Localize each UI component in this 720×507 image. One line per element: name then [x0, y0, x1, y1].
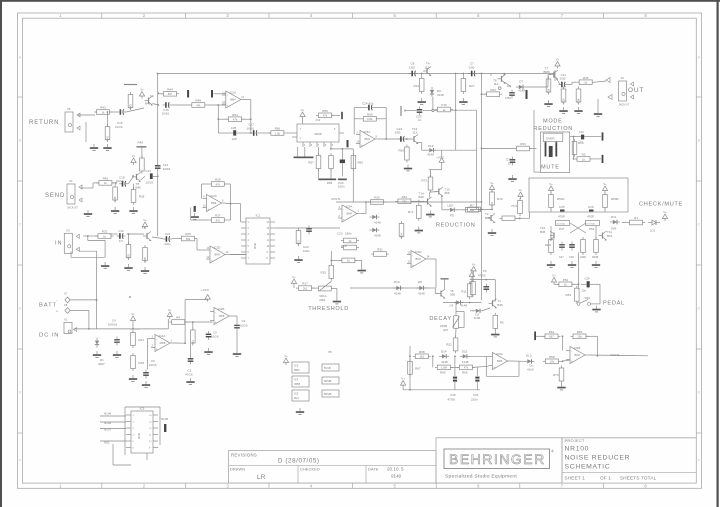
- svg-text:-: -: [412, 253, 413, 257]
- wire t5 supply bar: [441, 278, 449, 280]
- wire in fb b: [88, 239, 105, 241]
- transistor T11: [599, 231, 607, 241]
- wire diode row b: [430, 287, 435, 289]
- svg-text:10k: 10k: [550, 360, 555, 364]
- svg-text:1/50: 1/50: [395, 131, 401, 135]
- junction rail r67: [409, 389, 411, 391]
- wire ic9 tail a: [112, 444, 114, 465]
- ground r31b: [358, 267, 366, 273]
- svg-text:V+: V+: [132, 154, 136, 158]
- wire c6 up: [147, 339, 149, 370]
- ground R36: [544, 100, 552, 106]
- svg-text:R65: R65: [399, 149, 405, 153]
- wire d7 t7: [526, 86, 548, 88]
- wire in tip: [83, 235, 98, 237]
- svg-text:B45: B45: [485, 216, 491, 220]
- wire t12 emitter: [441, 196, 443, 210]
- svg-text:D10: D10: [394, 280, 400, 284]
- wire fb ic6b b: [597, 336, 599, 356]
- svg-text:1/50: 1/50: [505, 96, 511, 100]
- resistor R40A: [549, 237, 554, 255]
- wire in sleeve down: [96, 251, 98, 262]
- wire vr2b top: [455, 303, 457, 316]
- wire box c21: [570, 136, 574, 138]
- connector X7 battery: [65, 297, 70, 303]
- capacitor C5: [484, 284, 490, 293]
- svg-text:B45: B45: [540, 230, 546, 234]
- wire p52 mid: [572, 283, 579, 285]
- resistor R30: [561, 87, 566, 105]
- svg-text:1/50: 1/50: [409, 66, 415, 70]
- svg-text:1n: 1n: [508, 162, 512, 166]
- capacitor C9c: [526, 90, 528, 99]
- svg-text:112: 112: [413, 131, 418, 135]
- svg-text:DRAWN: DRAWN: [230, 467, 245, 471]
- svg-text:IC6B: IC6B: [574, 346, 581, 350]
- svg-text:IC5C: IC5C: [364, 130, 372, 134]
- resistor R15: [329, 263, 334, 281]
- svg-text:+: +: [156, 347, 158, 351]
- svg-text:REDUCTION: REDUCTION: [534, 126, 574, 132]
- wire v+ rail stub: [402, 388, 404, 390]
- power symbol V+: [130, 312, 135, 323]
- resistor P52: [556, 278, 574, 287]
- ground in sleeve: [101, 262, 109, 268]
- svg-text:X7: X7: [64, 292, 68, 296]
- junction v+ rail: [132, 328, 134, 330]
- resistor R220: [581, 237, 586, 255]
- ground return sleeve: [90, 144, 98, 150]
- ground c2: [204, 348, 212, 354]
- svg-text:R44: R44: [167, 87, 173, 91]
- wire ic6b in drop: [562, 336, 564, 350]
- potentiometer P51: [586, 221, 600, 226]
- wire VCNTL rail: [336, 201, 482, 203]
- svg-text:R21: R21: [139, 338, 145, 342]
- power symbol V+: [551, 273, 556, 284]
- svg-text:R31: R31: [377, 248, 383, 252]
- svg-text:-: -: [211, 249, 212, 253]
- power symbol: [205, 295, 210, 302]
- junction ic4a out: [184, 342, 186, 344]
- ground R33: [124, 264, 132, 270]
- wire r50d c26: [604, 209, 606, 212]
- power symbol V+: [518, 188, 523, 199]
- svg-text:R68: R68: [419, 350, 425, 354]
- connector X5 block: [322, 364, 339, 397]
- wire row under ic2: [331, 148, 354, 150]
- svg-text:V+: V+: [556, 57, 560, 61]
- svg-text:BM4: BM4: [416, 257, 422, 261]
- svg-text:Specialized Studio Equipment: Specialized Studio Equipment: [445, 474, 517, 480]
- svg-text:D: D: [19, 306, 22, 311]
- junction r61: [418, 200, 420, 202]
- junction r63 bus: [481, 148, 483, 150]
- ground c3: [233, 350, 241, 356]
- wire c17 r66: [259, 132, 270, 134]
- svg-text:IC10: IC10: [230, 91, 237, 95]
- wire fb r54 l: [354, 118, 361, 120]
- svg-text:T5: T5: [142, 226, 146, 230]
- junction r22 row: [454, 355, 456, 357]
- svg-text:10/16: 10/16: [240, 324, 248, 328]
- svg-text:R67: R67: [415, 367, 421, 371]
- svg-text:667: 667: [168, 92, 173, 96]
- resistor R31b: [339, 258, 357, 263]
- svg-text:NOISE REDUCER: NOISE REDUCER: [565, 455, 631, 462]
- junction d14: [432, 355, 434, 357]
- resistor R50: [571, 330, 589, 339]
- svg-text:A: A: [19, 55, 22, 60]
- svg-text:B45: B45: [497, 303, 503, 307]
- wire t6 up: [490, 74, 492, 77]
- svg-text:112: 112: [494, 82, 499, 86]
- svg-text:10/15: 10/15: [145, 180, 153, 184]
- power symbol V+: [555, 57, 560, 68]
- wire r31b gnd b: [361, 260, 363, 266]
- svg-text:JACK-ST: JACK-ST: [619, 103, 630, 107]
- wire r41 drop: [107, 112, 109, 127]
- wire ic2c fb bot: [190, 208, 192, 221]
- svg-text:PROJECT: PROJECT: [565, 438, 585, 443]
- wire c18 t8: [128, 177, 133, 184]
- wire t2 base rail: [470, 208, 492, 210]
- ground sw2: [592, 306, 600, 312]
- wire r29 in: [202, 183, 209, 185]
- svg-text:V+: V+: [131, 312, 135, 316]
- wire dcin to d1: [130, 328, 140, 330]
- svg-text:10/16: 10/16: [163, 167, 171, 171]
- svg-text:R20: R20: [374, 196, 380, 200]
- capacitor C7: [468, 71, 477, 77]
- power symbol V+: [469, 268, 474, 279]
- wire r57 gnd: [318, 169, 320, 179]
- svg-text:V+: V+: [552, 273, 556, 277]
- svg-text:DECAY: DECAY: [429, 316, 451, 322]
- terminal bar R56: [341, 112, 343, 119]
- capacitor C24: [163, 232, 172, 246]
- transistor T10: [550, 231, 554, 241]
- wire r3 stem: [192, 322, 194, 330]
- resistor R58b: [543, 355, 561, 364]
- op-amp IC5D: [407, 250, 430, 268]
- svg-text:+: +: [412, 263, 414, 267]
- ground r40a: [547, 261, 555, 267]
- wire r11 top: [471, 279, 473, 284]
- svg-text:CHECKED: CHECKED: [300, 467, 320, 471]
- svg-text:2k2: 2k2: [303, 286, 308, 290]
- wire c25 row r: [237, 132, 251, 134]
- svg-text:C3: C3: [242, 319, 246, 323]
- BEHRINGER logo box: [436, 438, 562, 483]
- svg-text:B46: B46: [136, 185, 142, 189]
- junction r46: [115, 182, 117, 184]
- wire t5 base: [435, 293, 438, 295]
- svg-text:A: A: [698, 55, 701, 60]
- junction rail bus: [481, 73, 483, 75]
- junction t6 rail: [503, 73, 505, 75]
- junction c21: [573, 136, 575, 138]
- wire v+ p52: [554, 283, 559, 285]
- wire r60 to vcntl: [352, 149, 354, 202]
- resistor R50D: [603, 192, 608, 210]
- svg-text:1/50: 1/50: [560, 77, 566, 81]
- svg-text:3046: 3046: [137, 432, 141, 439]
- wire IC2 vplus: [302, 119, 304, 124]
- capacitor C25b: [560, 210, 565, 212]
- svg-text:X4: X4: [69, 179, 73, 183]
- wire ic4a out: [174, 342, 185, 344]
- resistor R29: [209, 178, 227, 187]
- op-amp IC2D: [206, 246, 229, 264]
- svg-text:SW2: SW2: [585, 296, 591, 300]
- wire batt plus a: [70, 310, 89, 312]
- resistor R44: [161, 87, 179, 96]
- wire send path a: [112, 182, 117, 184]
- resistor R35: [577, 76, 595, 85]
- svg-text:IC5: IC5: [294, 392, 299, 396]
- diode LD2: [447, 208, 457, 212]
- svg-text:47k: 47k: [216, 218, 221, 222]
- wire c1 up: [190, 343, 192, 355]
- junction t8 base: [132, 175, 134, 177]
- LED LD1: [652, 220, 656, 225]
- svg-text:V+: V+: [519, 188, 523, 192]
- wire r61 t14: [413, 200, 424, 202]
- wire t6 d7: [506, 83, 512, 88]
- capacitor C1: [188, 356, 194, 365]
- wire t14 r72: [429, 192, 431, 197]
- junction r62 r50: [562, 335, 564, 337]
- junction vr2b row: [455, 302, 457, 304]
- wire n102: [100, 421, 126, 423]
- svg-text:IC2: IC2: [316, 118, 321, 122]
- wire t5 base drop: [434, 288, 436, 294]
- wire out sleeve: [597, 99, 599, 110]
- resistor R26: [143, 245, 148, 263]
- capacitor C30: [340, 160, 345, 164]
- junction pc1: [519, 217, 521, 219]
- svg-text:R63: R63: [520, 142, 526, 146]
- wire r50c c25: [550, 209, 552, 212]
- svg-text:BM4: BM4: [230, 98, 236, 102]
- svg-text:+: +: [215, 320, 217, 324]
- junction c5: [485, 279, 487, 281]
- svg-text:50k: 50k: [186, 237, 191, 241]
- svg-text:R48: R48: [138, 141, 144, 145]
- wire r33 drop: [128, 234, 130, 245]
- wire r25 to ic2d: [197, 249, 206, 251]
- wire IC10 out: [245, 99, 251, 101]
- resistor R11: [467, 281, 472, 299]
- svg-text:4148: 4148: [460, 304, 467, 308]
- junction r11 row: [469, 302, 471, 304]
- svg-text:4148: 4148: [462, 360, 469, 364]
- svg-text:C4: C4: [449, 304, 453, 308]
- svg-text:47k: 47k: [323, 114, 328, 118]
- wire ic4a in: [148, 338, 152, 340]
- svg-text:IC4A: IC4A: [159, 334, 166, 338]
- svg-text:BM4: BM4: [347, 212, 353, 216]
- wire c19 up: [454, 356, 456, 376]
- wire r55 gnd: [330, 169, 332, 179]
- capacitor C14: [155, 163, 161, 172]
- svg-text:NR100: NR100: [565, 446, 590, 453]
- resistor R25: [179, 232, 197, 241]
- potentiometer P47: [556, 221, 570, 226]
- resistor R66b: [435, 365, 453, 370]
- wire cross 2: [570, 223, 586, 233]
- svg-text:+: +: [361, 143, 363, 147]
- resistor R56: [316, 109, 334, 118]
- ground D1: [93, 351, 101, 357]
- power symbol V+: [139, 87, 144, 98]
- svg-text:667: 667: [549, 335, 554, 339]
- junction r44: [157, 92, 159, 94]
- resistor R39: [131, 187, 136, 205]
- svg-text:+: +: [211, 259, 213, 263]
- svg-text:R54: R54: [232, 113, 238, 117]
- svg-text:1/50: 1/50: [469, 66, 475, 70]
- junction pedal mid: [578, 283, 580, 285]
- wire pin5 r57: [318, 147, 320, 156]
- svg-text:R53: R53: [566, 293, 572, 297]
- svg-text:10/16: 10/16: [116, 179, 124, 183]
- wire t5 row: [443, 302, 482, 304]
- wire batt plus b: [88, 311, 90, 329]
- svg-text:C: C: [698, 222, 701, 227]
- resistor R19: [341, 245, 359, 250]
- svg-text:N102: N102: [104, 421, 112, 425]
- svg-text:X6: X6: [67, 107, 71, 111]
- svg-text:R43: R43: [100, 106, 106, 110]
- svg-text:THRESHOLD: THRESHOLD: [308, 306, 349, 312]
- wire r66 ic2: [286, 132, 297, 134]
- wire ic6a out: [512, 360, 525, 362]
- resistor R28: [368, 196, 386, 205]
- wire bar ic10: [214, 93, 226, 95]
- wire fb right: [385, 108, 387, 140]
- svg-text:E: E: [698, 390, 701, 395]
- wire vertical c14 bottom: [157, 172, 159, 237]
- resistor R45: [96, 177, 114, 186]
- wire r37 out: [227, 219, 231, 221]
- transistor T14: [424, 197, 432, 207]
- svg-text:OVER: OVER: [546, 136, 555, 140]
- wire supply bar R48: [137, 146, 147, 148]
- wire in fb a: [87, 236, 89, 240]
- svg-text:D15: D15: [462, 350, 468, 354]
- svg-text:R66: R66: [275, 127, 281, 131]
- transistor T13: [410, 135, 418, 145]
- svg-text:PEDAL: PEDAL: [603, 301, 625, 307]
- svg-text:47/50: 47/50: [478, 273, 486, 277]
- svg-text:C: C: [19, 222, 22, 227]
- resistor R71: [417, 203, 422, 221]
- svg-text:R5: R5: [500, 321, 504, 325]
- op-amp IC5A: [338, 205, 361, 223]
- wire to IC2D: [196, 239, 198, 251]
- capacitor C17: [250, 130, 259, 136]
- ground ic4a: [129, 375, 137, 381]
- svg-text:BM4: BM4: [294, 368, 300, 372]
- svg-text:47/16: 47/16: [185, 373, 193, 377]
- transistor T5b: [143, 232, 151, 242]
- diode D13: [427, 148, 437, 152]
- diode D6: [370, 228, 380, 232]
- capacitor C12: [187, 90, 189, 98]
- svg-text:-: -: [343, 208, 344, 212]
- junction batt: [129, 296, 131, 298]
- connector X2: [619, 76, 634, 107]
- svg-text:P51: P51: [589, 227, 595, 231]
- wire r23 up: [421, 74, 423, 77]
- capacitor C2: [206, 331, 212, 340]
- capacitor C26: [589, 210, 594, 212]
- ground send sleeve: [84, 210, 92, 216]
- wire to ic1 pin1: [240, 204, 242, 222]
- ground IC2C: [191, 213, 199, 219]
- svg-text:C26: C26: [588, 205, 594, 209]
- svg-text:R62: R62: [549, 330, 555, 334]
- svg-text:10/16: 10/16: [211, 335, 219, 339]
- svg-text:1k2: 1k2: [420, 355, 425, 359]
- power symbol: [439, 158, 444, 165]
- connector X3: [64, 228, 79, 253]
- transistor T7: [550, 70, 558, 80]
- junction r55 row: [330, 148, 332, 150]
- junction x7: [96, 299, 98, 301]
- junction ic5a vcntl: [365, 201, 367, 203]
- svg-text:SEND: SEND: [45, 193, 65, 199]
- junction r3 top: [192, 321, 194, 323]
- svg-text:+: +: [494, 365, 496, 369]
- svg-text:+VCC: +VCC: [436, 155, 445, 159]
- svg-text:R49: R49: [196, 99, 202, 103]
- op-amp IC2C: [203, 194, 226, 212]
- svg-text:R70: R70: [553, 373, 559, 377]
- svg-text:C24: C24: [165, 232, 170, 236]
- svg-text:R22: R22: [446, 343, 452, 347]
- wire fb ic6a: [518, 361, 520, 376]
- capacitor C13: [150, 173, 153, 179]
- svg-text:R27: R27: [469, 84, 475, 88]
- wire c11 r35 c: [572, 81, 577, 83]
- wire v+ stem: [132, 323, 134, 329]
- svg-text:V+: V+: [490, 181, 494, 185]
- wire vcc stem: [207, 299, 209, 301]
- ground r70: [557, 384, 565, 390]
- diode D14: [439, 354, 449, 358]
- resistor R7: [463, 203, 481, 212]
- ground R46: [111, 207, 119, 213]
- svg-text:V+: V+: [603, 182, 607, 186]
- wire batt minus: [70, 299, 96, 301]
- transistor T1: [489, 299, 497, 309]
- svg-text:X3: X3: [66, 228, 70, 232]
- junction r54 r: [250, 118, 252, 120]
- wire dcin rail: [74, 328, 169, 330]
- svg-text:N107: N107: [104, 428, 112, 432]
- op-amp IC5C: [356, 130, 379, 148]
- wire r27 up: [462, 74, 464, 77]
- resistor R70: [559, 366, 564, 384]
- wire t5 coll: [444, 279, 446, 289]
- svg-text:D8: D8: [418, 280, 422, 284]
- svg-text:R10: R10: [578, 141, 584, 145]
- power symbol V+: [471, 262, 476, 273]
- svg-text:R25: R25: [185, 232, 191, 236]
